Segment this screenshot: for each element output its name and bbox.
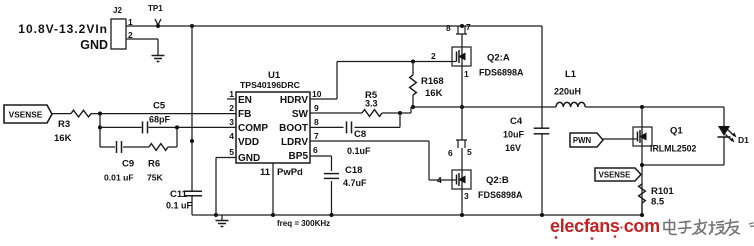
svg-text:Q2:A: Q2:A	[487, 53, 510, 64]
svg-text:C9: C9	[122, 159, 134, 170]
svg-text:75K: 75K	[147, 173, 164, 183]
svg-text:220uH: 220uH	[554, 87, 581, 97]
svg-text:BOOT: BOOT	[279, 123, 308, 134]
svg-text:8: 8	[446, 23, 451, 33]
svg-text:4: 4	[229, 131, 234, 141]
svg-text:6: 6	[313, 145, 318, 155]
svg-text:2: 2	[431, 51, 436, 61]
svg-text:freq = 300KHz: freq = 300KHz	[277, 219, 330, 228]
svg-text:7: 7	[314, 131, 319, 141]
svg-text:3: 3	[464, 191, 469, 201]
svg-text:BP5: BP5	[289, 151, 309, 162]
svg-text:C5: C5	[153, 101, 166, 112]
svg-text:IRLML2502: IRLML2502	[650, 144, 697, 154]
svg-text:R3: R3	[58, 119, 70, 130]
svg-text:4: 4	[437, 175, 442, 185]
svg-text:PwPd: PwPd	[277, 167, 303, 178]
svg-text:16K: 16K	[54, 133, 72, 144]
svg-text:VSENSE: VSENSE	[9, 109, 43, 119]
svg-text:C11: C11	[170, 189, 188, 200]
svg-text:FDS6898A: FDS6898A	[479, 68, 524, 78]
svg-text:9: 9	[314, 103, 319, 113]
svg-text:R168: R168	[421, 76, 444, 87]
svg-text:10: 10	[312, 89, 322, 99]
svg-text:68pF: 68pF	[149, 115, 171, 125]
svg-text:1: 1	[464, 69, 469, 79]
svg-text:5: 5	[229, 147, 234, 157]
svg-text:HDRV: HDRV	[280, 95, 308, 106]
svg-text:4.7uF: 4.7uF	[343, 178, 367, 188]
svg-text:D1: D1	[738, 135, 749, 145]
svg-text:16K: 16K	[425, 88, 443, 99]
svg-text:R101: R101	[651, 186, 674, 197]
svg-text:R6: R6	[148, 159, 160, 170]
svg-text:VSENSE: VSENSE	[599, 171, 631, 180]
svg-text:0.1 uF: 0.1 uF	[166, 201, 193, 211]
svg-text:1: 1	[229, 89, 234, 99]
svg-text:0.1uF: 0.1uF	[347, 146, 371, 156]
svg-text:3.3: 3.3	[365, 99, 378, 109]
svg-text:6: 6	[448, 148, 453, 158]
svg-text:11: 11	[260, 167, 271, 178]
svg-text:C18: C18	[345, 165, 362, 176]
svg-text:7: 7	[466, 22, 471, 32]
svg-text:PWN: PWN	[573, 136, 592, 145]
svg-text:5: 5	[467, 147, 472, 157]
svg-text:EN: EN	[238, 95, 252, 106]
svg-text:L1: L1	[565, 69, 577, 80]
svg-text:TP1: TP1	[148, 4, 163, 13]
svg-text:2: 2	[229, 103, 234, 113]
svg-text:C4: C4	[510, 116, 523, 127]
svg-text:FDS6898A: FDS6898A	[478, 190, 523, 200]
svg-text:COMP: COMP	[238, 123, 268, 134]
svg-text:GND: GND	[80, 38, 108, 52]
svg-text:3: 3	[229, 117, 234, 127]
svg-text:C8: C8	[354, 129, 366, 140]
svg-text:FB: FB	[238, 109, 251, 120]
svg-text:10uF: 10uF	[503, 130, 525, 140]
svg-text:8: 8	[314, 117, 319, 127]
svg-text:LDRV: LDRV	[281, 137, 308, 148]
svg-text:16V: 16V	[505, 143, 521, 153]
svg-text:GND: GND	[238, 153, 260, 164]
svg-text:VDD: VDD	[238, 137, 259, 148]
svg-text:J2: J2	[113, 6, 122, 15]
svg-text:TPS40196DRC: TPS40196DRC	[240, 80, 301, 90]
svg-text:Q1: Q1	[670, 126, 683, 137]
svg-text:8.5: 8.5	[651, 197, 665, 208]
svg-text:Q2:B: Q2:B	[486, 175, 509, 186]
svg-text:elecfans·com: elecfans·com	[550, 216, 660, 236]
svg-text:0.01 uF: 0.01 uF	[104, 173, 134, 183]
svg-text:10.8V-13.2VIn: 10.8V-13.2VIn	[18, 22, 108, 36]
svg-text:SW: SW	[292, 109, 309, 120]
